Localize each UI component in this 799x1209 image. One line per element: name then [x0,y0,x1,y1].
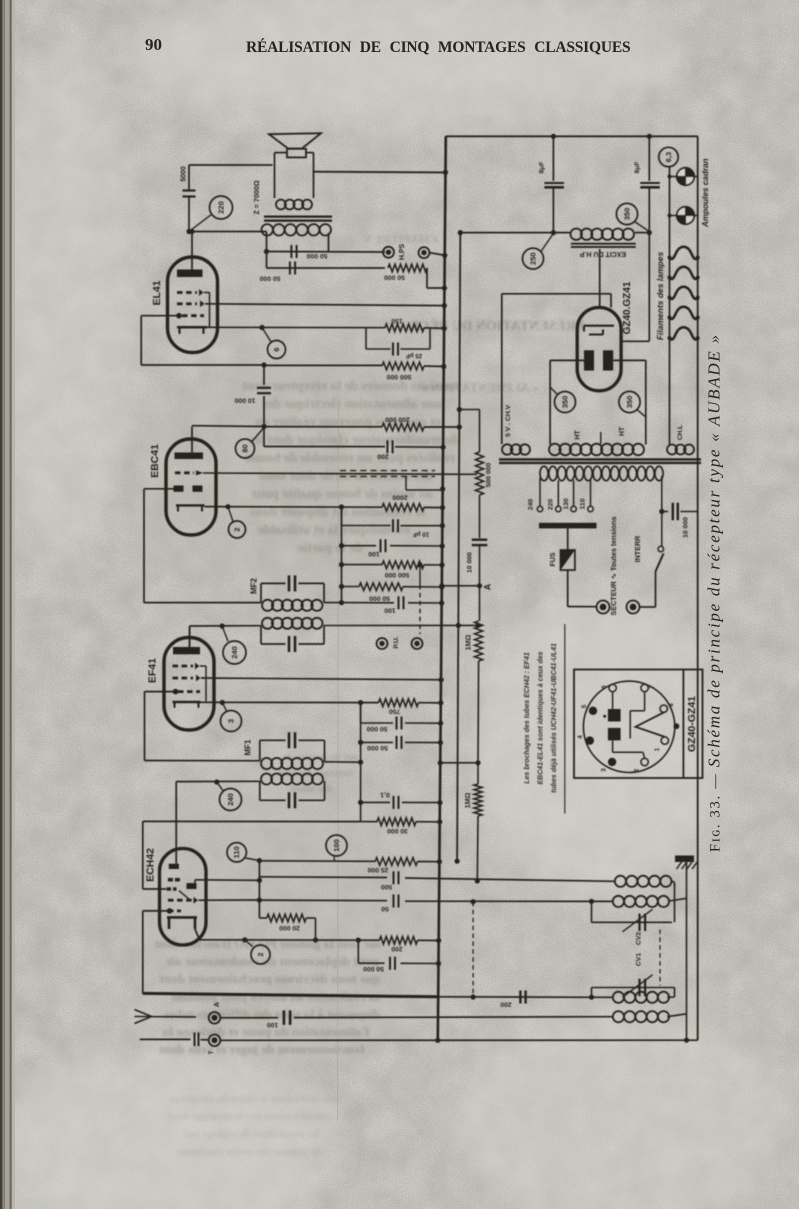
svg-text:500 000: 500 000 [385,571,410,578]
svg-text:3: 3 [227,719,236,723]
svg-text:réalisées pour un ensemble de: réalisées pour un ensemble de bonne [245,450,455,465]
svg-text:tubes déjà utilisés UCH42-UF41: tubes déjà utilisés UCH42-UF41-UBC41-UL4… [551,643,558,793]
svg-text:HT: HT [619,426,626,436]
svg-text:220: 220 [217,201,226,214]
svg-text:1MΩ: 1MΩ [464,634,473,650]
svg-text:100: 100 [368,550,380,557]
svg-text:T: T [209,1050,215,1054]
svg-text:considérations sur le montage: considérations sur le montage dont [168,1111,332,1123]
svg-text:Z = 7000Ω: Z = 7000Ω [252,180,261,215]
svg-text:10 000: 10 000 [467,552,474,573]
svg-text:200: 200 [377,453,389,460]
svg-text:A: A [214,1002,221,1007]
svg-text:50 000: 50 000 [363,965,384,972]
svg-text:240: 240 [226,793,235,806]
svg-text:3: 3 [601,768,608,772]
svg-text:220: 220 [548,499,555,511]
svg-text:90: 90 [145,35,162,54]
svg-text:10 000: 10 000 [234,397,255,404]
svg-text:les possibilités de réglage su: les possibilités de réglage sur [184,1128,319,1140]
svg-text:8μF: 8μF [634,161,641,173]
svg-text:MF1: MF1 [243,739,252,756]
svg-text:500: 500 [381,883,393,890]
svg-text:350: 350 [625,396,634,409]
svg-text:500 000: 500 000 [387,373,412,380]
svg-text:est indiquée là et utilisable: est indiquée là et utilisable [258,522,410,537]
svg-text:2: 2 [256,952,265,956]
svg-text:2: 2 [634,768,641,772]
svg-text:la gamme des ondes moyennes: la gamme des ondes moyennes [176,1146,319,1158]
svg-text:ECH42: ECH42 [145,848,157,882]
svg-text:100: 100 [384,607,396,614]
svg-text:MF2: MF2 [250,577,259,594]
svg-text:80: 80 [241,444,250,452]
svg-text:Ampoules cadran: Ampoules cadran [701,158,710,228]
svg-text:GZ40-GZ41: GZ40-GZ41 [686,696,698,752]
svg-text:350: 350 [561,396,570,409]
svg-text:P.U.: P.U. [393,636,400,648]
svg-text:que nous décrirons prochaineme: que nous décrirons prochainement dont [159,971,380,986]
svg-text:8: 8 [668,703,675,707]
svg-text:50 000: 50 000 [384,274,405,281]
svg-text:une alimentation électrique de: une alimentation électrique des [262,396,442,411]
svg-text:GZ40.GZ41: GZ40.GZ41 [622,281,633,334]
svg-text:puis alors dans le cadre du ré: puis alors dans le cadre du récepteur [169,1093,342,1105]
svg-text:750: 750 [389,707,401,714]
svg-text:PRÉSENTATION DU RÉCE: PRÉSENTATION DU RÉCE [410,317,585,334]
svg-text:150: 150 [391,317,403,324]
svg-text:du transformateur classique do: du transformateur classique dont les [249,432,460,447]
svg-text:5: 5 [581,704,588,708]
svg-text:6,3: 6,3 [664,152,673,162]
svg-text:110: 110 [579,498,586,509]
svg-text:Fɪɢ. 33. — Schéma de principe: Fɪɢ. 33. — Schéma de principe du récepte… [705,335,724,852]
svg-text:200: 200 [391,945,403,952]
svg-text:5 V . CH.V: 5 V . CH.V [505,404,512,437]
svg-text:20 000: 20 000 [279,924,300,931]
svg-text:100: 100 [267,1021,279,1028]
svg-text:500 000: 500 000 [486,463,493,488]
svg-text:de la partie: de la partie [297,540,362,555]
svg-text:50 000: 50 000 [367,744,388,751]
svg-text:petit déplacement du condensat: petit déplacement du condensateur air [165,954,378,969]
svg-text:4: 4 [577,735,584,739]
svg-text:EF41: EF41 [147,658,159,683]
svg-text:5000: 5000 [181,166,188,182]
svg-text:EBC41-EL41 sont identiques à c: EBC41-EL41 sont identiques à ceux des [538,651,545,784]
svg-text:RÉALISATION DE CINQ MONTAGES C: RÉALISATION DE CINQ MONTAGES CLASSIQUES [246,39,632,56]
svg-text:FUS: FUS [550,552,557,566]
svg-text:110: 110 [232,846,241,858]
svg-text:CH.L: CH.L [677,425,684,440]
svg-text:Filaments des lampes: Filaments des lampes [655,252,665,341]
svg-text:CV2: CV2 [636,932,643,945]
svg-text:50 000: 50 000 [369,595,390,602]
svg-text:200 000: 200 000 [385,416,410,423]
svg-text:7: 7 [649,685,656,689]
svg-text:1: 1 [654,747,661,751]
svg-text:des tubes: des tubes [291,784,332,795]
svg-text:INTERR: INTERR [633,535,642,563]
svg-text:240: 240 [528,499,535,511]
svg-text:10 μF: 10 μF [413,531,430,538]
svg-text:0,1: 0,1 [380,791,390,798]
svg-text:CV1: CV1 [636,953,643,966]
svg-text:6: 6 [601,685,608,689]
svg-text:130: 130 [563,498,570,510]
svg-text:100: 100 [332,839,341,852]
svg-text:8μF: 8μF [539,161,546,173]
svg-text:200: 200 [500,1000,512,1007]
svg-text:EL41: EL41 [151,280,163,305]
svg-text:240: 240 [230,646,239,659]
svg-text:disposant à la suite des diffé: disposant à la suite des différents tube… [164,1006,380,1021]
svg-text:Les brochages des tubes ECH42: Les brochages des tubes ECH42 : EF41 [524,652,531,784]
svg-text:SECTEUR ∿ Toutes tensions: SECTEUR ∿ Toutes tensions [609,517,618,616]
svg-text:A: A [483,583,493,590]
svg-text:HT: HT [575,430,582,440]
svg-text:fonctionnement de juger et cel: fonctionnement de juger et celle dont [159,1042,365,1057]
svg-text:H.PS: H.PS [399,244,406,261]
svg-text:30 000: 30 000 [387,827,408,834]
svg-text:350: 350 [623,208,632,221]
svg-text:50 000: 50 000 [306,252,327,259]
svg-text:6: 6 [272,347,281,351]
svg-text:tensions données de la récepte: tensions données de la récepteur dont [242,378,458,393]
svg-text:25 μF: 25 μF [406,352,423,359]
svg-text:2000: 2000 [392,494,407,501]
svg-text:25 000: 25 000 [367,866,388,873]
svg-text:EXCIT DU H.P: EXCIT DU H.P [580,250,627,257]
svg-text:50: 50 [381,905,389,912]
svg-text:250: 250 [529,252,538,265]
svg-text:1MΩ: 1MΩ [463,792,472,808]
svg-text:50 000: 50 000 [259,274,280,281]
svg-text:EBC41: EBC41 [149,444,161,478]
svg-text:2: 2 [233,527,242,531]
svg-text:10 000: 10 000 [682,517,689,538]
svg-text:50 000: 50 000 [366,725,387,732]
